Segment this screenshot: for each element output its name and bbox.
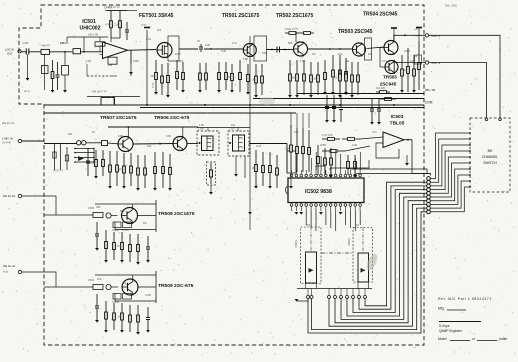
emitter box pair row4	[113, 294, 121, 300]
FET501 3SK45	[157, 43, 172, 58]
wire MIC input	[22, 140, 44, 142]
row4 entry jog	[44, 272, 56, 287]
outer dashed enclosure border	[19, 5, 424, 345]
row3 entry jog	[44, 196, 56, 215]
svg-text:1.5K: 1.5K	[199, 124, 204, 127]
interstage shunt pair	[199, 63, 201, 73]
IC502 top pin risers	[310, 158, 312, 170]
wire TR505 to OUT2	[394, 63, 425, 73]
wire R501 to op-amp input	[81, 51, 103, 53]
input shunt capacitor	[57, 62, 59, 75]
row2 left rails	[54, 144, 56, 170]
svg-text:470: 470	[294, 131, 299, 134]
transistor TR507	[118, 137, 133, 152]
svg-text:MIC TR: MIC TR	[425, 88, 436, 92]
svg-text:1K: 1K	[252, 78, 255, 82]
feedback resistor under op-amp	[108, 57, 117, 64]
svg-text:Ref. MIC Part 1.98314371: Ref. MIC Part 1.98314371	[438, 297, 492, 301]
svg-text:47K: 47K	[338, 53, 343, 56]
bus junction dots	[146, 104, 148, 106]
svg-text:418 4.7M: 418 4.7M	[88, 34, 98, 37]
TR508 cluster	[105, 230, 107, 242]
svg-text:Model: Model	[438, 337, 447, 341]
TR502 bias network above	[285, 32, 289, 34]
svg-text:100: 100	[147, 145, 152, 148]
svg-text:1K: 1K	[252, 166, 255, 170]
svg-text:C530: C530	[88, 207, 95, 210]
svg-text:+B: +B	[414, 54, 418, 58]
title block signature rule	[439, 321, 481, 323]
TR506 cluster	[154, 152, 156, 167]
input coupling cap row3	[96, 222, 98, 234]
row2 input circle pair	[77, 141, 81, 145]
coupling cap TR501 TR502	[276, 47, 278, 53]
svg-text:1M: 1M	[143, 222, 146, 225]
svg-text:C540: C540	[88, 279, 95, 282]
trimmer below FL501 dashed box	[207, 162, 216, 185]
input shunt at cap	[27, 55, 29, 79]
svg-text:47K: 47K	[226, 75, 231, 79]
x250 tie bottom arrow	[248, 212, 252, 215]
op-amp pin stubs	[100, 45, 103, 47]
svg-text:2.2K: 2.2K	[86, 60, 91, 63]
svg-text:TR504 2SC945: TR504 2SC945	[363, 12, 398, 18]
dashed feedback wire	[87, 75, 111, 77]
svg-text:100: 100	[402, 68, 407, 72]
resistor R501 box	[73, 49, 81, 54]
svg-text:560: 560	[291, 76, 296, 80]
svg-text:TR507 2SC1675: TR507 2SC1675	[100, 115, 137, 121]
svg-text:Wa Fu Su: Wa Fu Su	[2, 121, 15, 125]
emitter box pair row3	[113, 222, 121, 228]
TR509 input parts	[44, 286, 93, 288]
pot block VR501 dashed outline	[301, 227, 322, 284]
svg-text:BH: BH	[488, 149, 493, 153]
parts below TR505	[376, 91, 380, 93]
svg-text:41111 17777: 41111 17777	[285, 28, 299, 31]
svg-text:1.5K: 1.5K	[300, 60, 305, 63]
scan smudges	[365, 252, 380, 272]
svg-text:2SC945: 2SC945	[380, 82, 397, 87]
TR509 collector wire	[132, 275, 134, 280]
transistor TR501	[243, 44, 256, 57]
transistor TR505	[385, 61, 398, 74]
svg-text:TR503 2SC945: TR503 2SC945	[338, 29, 373, 35]
op-amp IC501	[103, 42, 128, 59]
svg-text:33K: 33K	[96, 206, 101, 209]
svg-text:OUT 2: OUT 2	[432, 61, 441, 65]
svg-text:QAMP Engineer: QAMP Engineer	[439, 329, 463, 333]
svg-text:FET501 3SK45: FET501 3SK45	[139, 13, 174, 19]
svg-text:SWITCH: SWITCH	[483, 161, 497, 165]
svg-text:0.01: 0.01	[146, 38, 151, 41]
svg-text:0.01: 0.01	[256, 145, 261, 148]
TR508 output elbow	[138, 216, 157, 233]
left group verticals above IC502	[290, 125, 292, 145]
svg-text:TR502 2SC1675: TR502 2SC1675	[276, 13, 313, 19]
terminal OUT 2	[425, 61, 428, 64]
TR509 output elbow	[138, 287, 156, 303]
svg-text:470: 470	[410, 60, 415, 63]
filter can FL501 dashed shield	[197, 131, 219, 155]
svg-text:COM: COM	[425, 101, 433, 105]
transistor TR509	[122, 279, 138, 295]
wire input to C188	[21, 51, 26, 53]
TR501 emitter cluster	[247, 64, 249, 75]
row3 loop wire	[115, 222, 156, 230]
input shunt resistor	[52, 60, 54, 72]
interstage parts on wire	[200, 44, 202, 47]
input series box	[41, 49, 50, 54]
ground block under op-amp	[101, 98, 115, 106]
row3 collector rail	[95, 203, 156, 205]
bus MIC line	[297, 93, 424, 95]
decoupling vertical x114	[113, 97, 115, 105]
input network row2 wire	[44, 143, 77, 145]
svg-text:1.5K: 1.5K	[60, 42, 65, 45]
svg-text:AT NT +Y: AT NT +Y	[53, 170, 64, 173]
transistor TR503	[353, 43, 366, 56]
svg-text:+B: +B	[414, 27, 418, 31]
filter can FL502 dashed shield	[228, 131, 249, 156]
svg-text:TR501 2SC1675: TR501 2SC1675	[222, 13, 259, 19]
small box near border	[415, 55, 422, 64]
svg-text:TR508 2SC1675: TR508 2SC1675	[158, 211, 195, 217]
TR508 output cap	[147, 236, 149, 247]
svg-text:10u: 10u	[345, 60, 350, 63]
FET right parts	[176, 60, 178, 72]
svg-text:1n 47K: 1n 47K	[104, 6, 112, 10]
svg-text:UHIC002: UHIC002	[80, 26, 101, 32]
svg-text:4.7K 10K: 4.7K 10K	[322, 133, 333, 137]
vertical tie line x250	[249, 36, 251, 230]
TR507 cluster	[109, 151, 111, 165]
terminal LOC IN/OUT	[18, 50, 21, 53]
wire TR501 to TR502	[267, 49, 294, 51]
pot VR501 element	[306, 252, 317, 283]
bus second line	[253, 98, 424, 100]
wire jog into connector top A	[350, 169, 427, 174]
row of parts left of IC503	[317, 145, 319, 157]
transistor TR504	[384, 41, 398, 55]
svg-text:Tek. 2SC: Tek. 2SC	[445, 4, 458, 8]
svg-text:470: 470	[157, 29, 162, 32]
svg-text:47K: 47K	[97, 278, 102, 281]
svg-text:33K: 33K	[262, 52, 267, 55]
IC502 package body	[288, 178, 364, 203]
svg-text:C1506: C1506	[112, 302, 119, 304]
svg-text:L MIC IN: L MIC IN	[2, 137, 13, 141]
wire FET to interstage	[179, 48, 198, 50]
capacitor C188	[25, 49, 27, 55]
svg-text:100P: 100P	[133, 60, 139, 63]
FL502 transformer core	[233, 135, 245, 151]
wire TR504 TR505 bases joined	[380, 47, 384, 49]
supply tick above TR504	[391, 27, 397, 29]
wire fan upper bundle to channel switch	[430, 133, 470, 179]
svg-text:OUT 1: OUT 1	[432, 34, 441, 38]
svg-text:2.2K: 2.2K	[89, 161, 95, 165]
dash-dot mechanical link	[321, 252, 353, 254]
FET drain can outline	[168, 36, 179, 61]
svg-text:448 1M 47 47: 448 1M 47 47	[92, 91, 107, 94]
svg-text:100P: 100P	[175, 53, 181, 56]
TR501 can outline	[254, 36, 267, 61]
top feedback resistor box	[95, 42, 105, 46]
stub arrow left of connector	[406, 155, 408, 163]
svg-text:Wa Su uF: Wa Su uF	[3, 264, 16, 268]
TR507 collector line	[127, 127, 129, 137]
svg-text:3.3K: 3.3K	[166, 135, 171, 138]
input branch vertical	[44, 54, 46, 90]
wire TR507 to TR506	[133, 143, 173, 146]
pot bottom terminal row	[307, 296, 310, 299]
svg-text:4.7M: 4.7M	[152, 83, 155, 88]
row2 ladder right rail	[93, 149, 95, 163]
input shunt branch	[64, 52, 66, 65]
svg-text:1N: 1N	[197, 40, 200, 43]
pot bottom rail	[297, 288, 372, 290]
input coupling cap row4	[96, 294, 98, 306]
channel switch dashed box	[470, 118, 510, 192]
wire OUT2 to channel switch	[429, 63, 487, 118]
wire C188 to R box	[29, 51, 41, 53]
svg-text:+NB 477: +NB 477	[41, 45, 51, 48]
svg-text:560: 560	[120, 210, 125, 213]
svg-text:2.2K: 2.2K	[205, 44, 210, 47]
svg-text:LOC IN: LOC IN	[5, 48, 14, 52]
transistor TR502	[294, 42, 308, 56]
svg-text:At lu: At lu	[3, 270, 9, 274]
svg-text:C=O=E: C=O=E	[2, 141, 11, 145]
svg-text:10K: 10K	[285, 147, 290, 151]
svg-text:1.500: 1.500	[198, 128, 205, 131]
svg-text:10u: 10u	[231, 124, 236, 127]
svg-text:TR505: TR505	[383, 75, 397, 80]
row4 collector rail	[95, 274, 156, 276]
TR503 can outline	[365, 38, 372, 60]
risers from mid rail to IC503 group	[290, 113, 292, 128]
svg-text:6.8K: 6.8K	[118, 135, 123, 138]
row2 contact ladder	[75, 148, 94, 150]
svg-text:1K: 1K	[118, 315, 121, 319]
TR504 output network	[401, 55, 403, 69]
svg-text:1K: 1K	[92, 131, 95, 134]
FL502 output drops	[235, 156, 237, 174]
svg-text:de m: de m	[24, 90, 30, 93]
svg-text:Wa Fu Su: Wa Fu Su	[3, 194, 16, 198]
supply tick near border	[416, 27, 422, 29]
TR508 collector wire	[131, 204, 133, 208]
TR508 input parts	[44, 214, 93, 216]
row2 series box	[102, 141, 108, 146]
IC502 bottom ground arrows	[294, 212, 298, 215]
terminal OUT 1	[425, 34, 428, 37]
svg-text:220: 220	[150, 74, 155, 78]
connector pin stack	[427, 177, 431, 181]
TR503 emitter cluster	[339, 60, 341, 74]
svg-text:of: of	[472, 337, 475, 341]
svg-text:47K: 47K	[105, 22, 110, 26]
svg-text:C1505: C1505	[112, 230, 119, 232]
svg-text:10K: 10K	[312, 77, 317, 81]
svg-text:Mfg.: Mfg.	[438, 307, 445, 311]
row4 loop wire	[115, 294, 156, 302]
svg-text:1N4 ABC: 1N4 ABC	[376, 87, 386, 90]
bus common rail lower	[140, 107, 424, 109]
TR509 cluster	[105, 301, 107, 312]
transistor TR508	[122, 208, 138, 224]
svg-text:1777: 1777	[141, 24, 147, 27]
wire OUT1 to channel switch	[429, 35, 500, 117]
wire TR502 to TR503	[308, 48, 353, 50]
wire TR506 to filter	[187, 143, 198, 145]
wire over filter cans	[197, 127, 250, 129]
svg-text:IC503: IC503	[391, 114, 404, 120]
pot terminal stubs from rail	[307, 289, 309, 296]
svg-text:1M: 1M	[312, 53, 315, 56]
svg-text:1.507: 1.507	[229, 128, 236, 131]
svg-text:S-Kups: S-Kups	[439, 324, 450, 328]
svg-text:100: 100	[179, 60, 184, 63]
IC503 input resistors	[322, 138, 328, 140]
bus +B top rail	[105, 10, 137, 12]
svg-text:IC502 9838: IC502 9838	[305, 189, 332, 195]
svg-text:22K: 22K	[114, 22, 119, 26]
svg-text:TR506 2SC-675: TR506 2SC-675	[154, 115, 190, 121]
svg-text:470: 470	[118, 168, 123, 172]
IC503 feedback loop	[376, 143, 399, 158]
IC502 bottom pins	[290, 204, 293, 207]
TR509 output cap	[147, 307, 149, 318]
svg-text:2.2K: 2.2K	[352, 144, 357, 147]
pot block VR502 dashed outline	[353, 228, 373, 283]
svg-text:220: 220	[368, 53, 373, 56]
svg-text:3.3K: 3.3K	[221, 50, 226, 53]
bus common ground rail	[44, 104, 424, 106]
svg-text:10K: 10K	[68, 133, 73, 136]
svg-text:0.047: 0.047	[404, 50, 411, 53]
svg-text:560: 560	[288, 42, 293, 45]
svg-text:10K: 10K	[306, 224, 311, 227]
wire row2 to IC502 area	[249, 143, 287, 145]
svg-text:VR502: VR502	[347, 238, 351, 246]
IC502 top interconnect jog	[316, 166, 325, 170]
svg-text:TR509 2SC-675: TR509 2SC-675	[158, 283, 194, 289]
row2 input shunt parts	[87, 148, 89, 161]
wire box to R501	[50, 51, 74, 53]
svg-text:1K: 1K	[356, 224, 359, 227]
FET source resistor cluster	[155, 60, 157, 73]
FL501 transformer core	[202, 136, 214, 151]
svg-text:4.7u: 4.7u	[372, 131, 377, 134]
wire TR503 to TR504 base	[367, 47, 385, 49]
op-amp IC503	[383, 132, 404, 148]
svg-text:OUT: OUT	[7, 52, 13, 56]
interstage cluster	[218, 62, 220, 73]
TR502 bias cluster	[289, 60, 291, 74]
arrow below output jog	[129, 72, 133, 75]
wire fan lower bundle	[308, 212, 427, 333]
svg-text:10u: 10u	[108, 64, 113, 67]
svg-text:C188: C188	[23, 42, 29, 45]
op-amp output jog	[128, 50, 132, 64]
bus mid-section rail	[44, 112, 296, 114]
transistor TR506	[173, 137, 187, 151]
ground arrow left of terminals	[297, 299, 308, 302]
pot VR502 element	[358, 253, 369, 282]
row2 tall capacitor block	[287, 151, 296, 173]
IC502 top pins	[290, 174, 293, 177]
top feedback rail	[67, 36, 108, 38]
IC502 bottom long drops	[305, 211, 307, 225]
supply stub above FET	[146, 30, 148, 104]
decoupling caps above IC503	[326, 95, 328, 107]
IC503 output wire	[404, 139, 412, 141]
svg-text:0.047: 0.047	[145, 294, 152, 297]
svg-text:VR501: VR501	[294, 240, 298, 248]
svg-text:TBL05: TBL05	[390, 121, 405, 127]
wire jog into connector top B	[356, 174, 431, 176]
row2 right cluster	[255, 150, 257, 165]
svg-text:0.01: 0.01	[382, 60, 387, 63]
svg-text:6.8K: 6.8K	[243, 58, 248, 61]
svg-text:4.7u: 4.7u	[232, 42, 237, 45]
coupling parts between TR502 TR503	[332, 55, 334, 70]
bias network above IC501	[107, 10, 127, 12]
wire TR504 to OUT1	[394, 35, 426, 41]
